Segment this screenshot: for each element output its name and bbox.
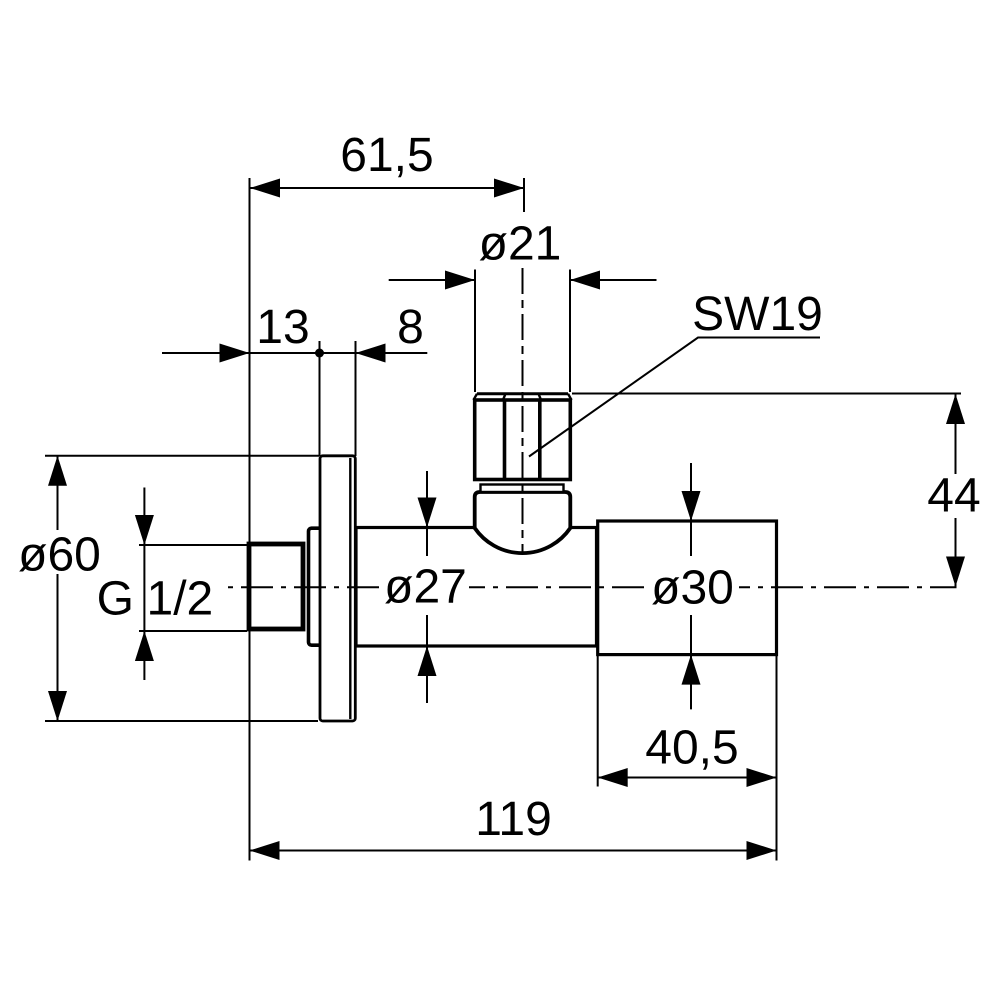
vertical centerline of outlet: [522, 268, 524, 552]
arrow 40,5 left: [598, 768, 628, 787]
extension line 40,5 left: [597, 655, 599, 787]
extension line 44 top: [572, 393, 961, 395]
arrow 44 top: [946, 394, 965, 424]
dot 13/8 junction: [315, 349, 324, 358]
svg-text:44: 44: [927, 470, 980, 523]
svg-text:ø60: ø60: [18, 529, 101, 582]
arrow 13 left: [220, 344, 250, 363]
extension line ø60 bottom: [45, 720, 318, 722]
extension line ø60 top: [45, 455, 319, 457]
arrow ø60 top: [48, 456, 67, 486]
extension line left (x=249.5, shared 61,5 / 13 / 119): [249, 178, 251, 861]
label ø30: [647, 556, 739, 615]
nut chamfer corner right: [568, 394, 572, 400]
nut chamfer mark mid-left: [503, 394, 506, 400]
arrow 61,5 left: [250, 179, 280, 198]
extension line ø21 left: [474, 270, 476, 393]
svg-text:1/2: 1/2: [147, 573, 214, 626]
arrow 61,5 right: [494, 179, 524, 198]
arrow ø21 left: [445, 271, 475, 290]
valve body (horizontal, ø27): [356, 528, 597, 647]
dimension line 40,5: [598, 777, 777, 779]
extension line dot (x=319.5): [319, 341, 321, 456]
dimension line ø30: [690, 463, 692, 709]
washer under nut: [481, 485, 564, 493]
svg-text:8: 8: [397, 301, 424, 354]
arrow ø30 bottom: [682, 655, 701, 685]
horizontal centerline: [228, 586, 957, 588]
extension line right (x=776.5, shared 40,5 / 119): [776, 655, 778, 861]
arrow ø27 top: [418, 498, 437, 528]
svg-text:G: G: [97, 573, 134, 626]
arrow ø21 right: [570, 271, 600, 290]
dimension line ø21 right tail: [570, 279, 657, 281]
arrow 119 right: [747, 841, 777, 860]
arrow ø30 top: [682, 491, 701, 521]
dimension line ø27: [426, 471, 428, 703]
svg-text:ø30: ø30: [651, 562, 734, 615]
dimension line ø60: [57, 456, 59, 721]
svg-text:119: 119: [475, 793, 552, 846]
nut top chamfer band: [477, 392, 568, 395]
extension line 8 right (x=355.5): [355, 341, 357, 456]
wall flange (rosette): [320, 456, 355, 721]
nut hex flat line right: [538, 400, 542, 480]
svg-text:13: 13: [256, 301, 309, 354]
handle (ø30): [598, 521, 777, 655]
arrow G1/2 bottom: [135, 631, 154, 661]
extension line ø21 right: [569, 270, 571, 393]
wall nipple G1/2 (threaded stub): [249, 544, 303, 629]
svg-text:40,5: 40,5: [645, 722, 738, 775]
extension line G1/2 bottom: [139, 630, 247, 632]
dimension line 44: [955, 394, 957, 587]
arrow 8 right: [356, 344, 386, 363]
hub collar behind flange: [309, 528, 323, 645]
extension line 61,5 right: [523, 178, 525, 212]
dimension group: thin lines under part: [45, 178, 777, 861]
label ø60: [16, 530, 102, 574]
svg-text:ø27: ø27: [384, 561, 467, 614]
nut chamfer corner left: [474, 394, 478, 400]
bonnet dome of outlet: [475, 492, 571, 553]
dimension line ø21 left tail: [389, 279, 475, 281]
arrow 44 bottom: [946, 557, 965, 587]
svg-text:ø21: ø21: [479, 218, 562, 271]
leader line SW19: [529, 338, 820, 457]
flange inner edge line: [349, 458, 351, 719]
nut hex flat line left: [503, 400, 507, 480]
label 44: [924, 474, 984, 518]
label ø27: [381, 556, 469, 615]
dimension line G1/2: [143, 488, 145, 681]
arrow 119 left: [250, 841, 280, 860]
arrow ø60 bottom: [48, 691, 67, 721]
outlet nut SW19 body: [475, 400, 571, 480]
dimension line 61,5: [250, 187, 524, 189]
text labels with white backing boxes: [16, 129, 984, 846]
arrow 40,5 right: [747, 768, 777, 787]
dimension line 13 / 8: [162, 352, 427, 354]
arrow ø27 bottom: [418, 646, 437, 676]
dimension line 119: [250, 850, 777, 852]
nut chamfer mark mid-right: [539, 394, 542, 400]
svg-text:SW19: SW19: [692, 288, 823, 341]
svg-text:61,5: 61,5: [340, 129, 433, 182]
extension line G1/2 top: [139, 544, 247, 546]
part: valve body and fittings (white filled, thick outline): [249, 394, 777, 721]
centerlines and over-part dimension lines: [135, 268, 965, 709]
arrow G1/2 top: [135, 515, 154, 545]
